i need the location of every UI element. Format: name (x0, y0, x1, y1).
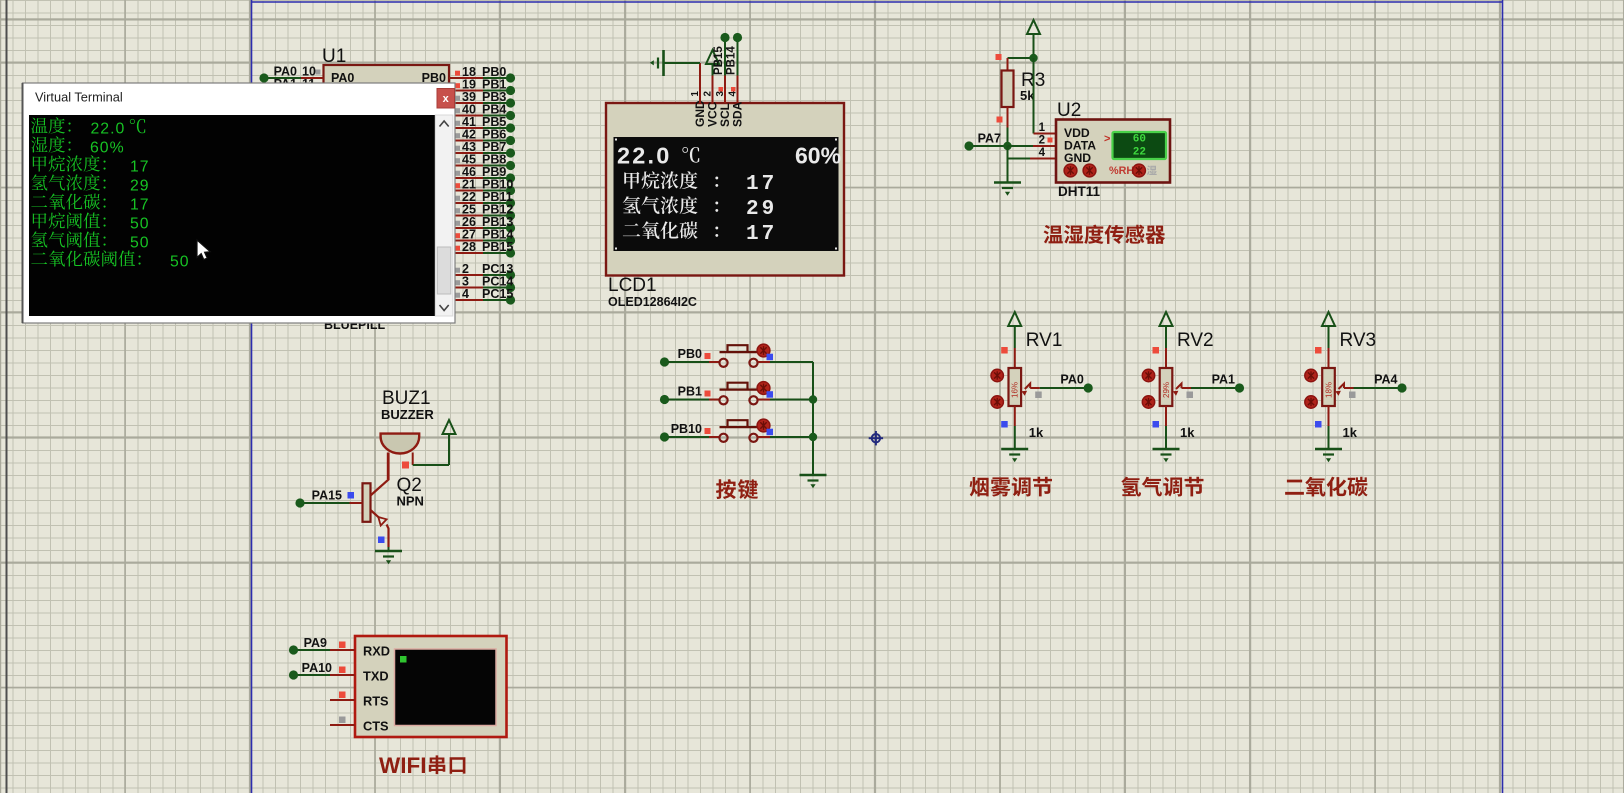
svg-text:PB10: PB10 (671, 422, 702, 436)
svg-text:BUZ1: BUZ1 (382, 388, 431, 409)
virtual terminal window (23, 83, 456, 323)
pin marker R3 top (996, 54, 1002, 60)
node PA10 terminal (289, 670, 298, 679)
svg-text:29: 29 (130, 178, 150, 195)
svg-text:PA9: PA9 (304, 636, 327, 650)
Q2 emitter blue marker (378, 537, 385, 544)
wire U1 pin 42 PB6 (449, 140, 483, 142)
virtual terminal text (31, 117, 70, 133)
label co2 caption (1285, 477, 1368, 497)
power arrow RV2 (1160, 312, 1173, 326)
button PB1 cap (720, 383, 758, 390)
mouse cursor (197, 240, 210, 260)
RV2 knob down (1142, 396, 1154, 408)
pin marker (455, 196, 460, 201)
svg-text:17: 17 (746, 223, 777, 246)
wire U1 pin 41 PB5 (449, 127, 483, 129)
Q2 emitter (371, 510, 379, 517)
label smoke caption (970, 477, 1052, 497)
node PB10 terminal (506, 186, 515, 195)
pin marker (455, 183, 460, 188)
svg-text:PA1: PA1 (1212, 373, 1235, 387)
buzzer BUZ1 body (381, 434, 420, 454)
svg-text:PA0: PA0 (1060, 373, 1083, 387)
button PB10 cap (720, 420, 758, 427)
lcd pin stub 2 (712, 76, 714, 104)
node bus junction 2 (809, 433, 817, 441)
pin marker PA9 (339, 642, 346, 649)
svg-text:17: 17 (130, 197, 150, 214)
pin marker 3 (719, 87, 724, 92)
svg-text:16%: 16% (1011, 382, 1020, 398)
dht11 knob plus (1083, 164, 1096, 177)
left editor border (6, 0, 8, 793)
sensor U2 body (1056, 120, 1170, 183)
pin marker PA10 (339, 667, 346, 674)
label buttons caption (716, 479, 758, 499)
pin marker (455, 133, 460, 138)
button PB10 pin rings (719, 434, 727, 442)
dht11 knob minus (1064, 164, 1077, 177)
wire U1 pin 45 PB8 (449, 165, 483, 167)
wire buzzer to power (413, 464, 449, 466)
pin marker gray RV1 (1035, 392, 1042, 399)
wire PA1 to U1 (268, 90, 301, 92)
wire DATA (1008, 145, 1034, 147)
svg-text:NPN: NPN (397, 494, 424, 509)
svg-text:BUZZER: BUZZER (381, 407, 434, 422)
wire U1 pin 28 PB15 (449, 252, 483, 254)
wire RV2 wiper out (1182, 387, 1192, 389)
node PC15 terminal (506, 295, 515, 304)
svg-text:PC15: PC15 (482, 287, 513, 301)
pin marker RV1 top (1001, 347, 1008, 354)
svg-text:PA4: PA4 (1374, 373, 1397, 387)
wire RV1 wiper out (1030, 387, 1040, 389)
pin marker (455, 293, 460, 298)
node PB11 terminal (506, 198, 515, 207)
svg-text:1: 1 (1039, 122, 1046, 134)
node R3/PA7 junction (1003, 142, 1011, 150)
svg-text:PB15: PB15 (713, 46, 725, 75)
node PA9 terminal (289, 645, 298, 654)
wire U1 pin 22 PB11 (449, 202, 483, 204)
wire U1 pin 2 PC13 (449, 274, 483, 276)
wire U1 pin 3 PC14 (449, 287, 483, 289)
node PA4 terminal (1397, 383, 1406, 392)
pin marker (455, 208, 460, 213)
pin marker R3 bottom (997, 117, 1003, 123)
lcd pin stub 4 (737, 76, 739, 104)
wire R3 bottom (1007, 107, 1009, 128)
svg-text:x: x (443, 93, 450, 105)
lcd text line4 (623, 221, 698, 239)
wire U1 pin 4 PC15 (449, 299, 483, 301)
wire RV2 bottom (1165, 406, 1167, 426)
Q2 blue marker (348, 492, 355, 499)
node PA15 terminal (295, 498, 304, 507)
RV1 blue marker (1001, 421, 1008, 428)
RV3 wiper (1339, 384, 1345, 390)
pin marker (455, 71, 460, 76)
svg-text:OLED12864I2C: OLED12864I2C (608, 295, 697, 309)
svg-text:4: 4 (462, 287, 469, 301)
svg-text:RV1: RV1 (1026, 330, 1063, 351)
svg-text:28: 28 (462, 240, 476, 254)
svg-text:RV2: RV2 (1177, 330, 1214, 351)
pin marker (455, 233, 460, 238)
dht11 knob rh (1133, 164, 1146, 177)
wire lcd pin1 to ground (699, 63, 701, 76)
svg-text:18%: 18% (1324, 382, 1333, 398)
pin marker (455, 83, 460, 88)
svg-text:PA15: PA15 (312, 489, 342, 503)
button PB1 knob (757, 382, 770, 395)
wire RV3 bottom (1328, 406, 1330, 426)
label sensor caption (1044, 225, 1166, 244)
svg-text:PB15: PB15 (482, 240, 513, 254)
pin marker (705, 428, 711, 434)
svg-text:60: 60 (1133, 134, 1146, 146)
wire U1 pin 25 PB12 (449, 215, 483, 217)
wire CTS stub (330, 724, 355, 726)
wire U1 pin 21 PB10 (449, 190, 483, 192)
node PB12 terminal (506, 211, 515, 220)
node bus junction 1 (809, 395, 817, 403)
wire buzzer right leg (412, 453, 414, 466)
transistor Q2 base bar (363, 483, 371, 522)
pin marker (455, 108, 460, 113)
svg-text:50: 50 (130, 216, 150, 233)
pin marker (455, 268, 460, 273)
wire VDD pin (1033, 58, 1035, 134)
ground (rotated) for lcd (650, 50, 664, 76)
svg-text:22.0: 22.0 (617, 143, 672, 169)
svg-text:Virtual Terminal: Virtual Terminal (35, 90, 123, 105)
resistor R3 (1002, 71, 1014, 108)
dht11 green display (1113, 132, 1167, 159)
svg-text:50: 50 (130, 235, 150, 252)
wire U1 pin 43 PB7 (449, 152, 483, 154)
svg-text:>: > (1104, 133, 1110, 145)
wire RTS stub (330, 699, 355, 701)
node PB0 terminal (506, 73, 515, 82)
node PB9 terminal (506, 173, 515, 182)
node PB14 terminal (506, 236, 515, 245)
svg-text:2: 2 (1039, 135, 1045, 147)
pin marker dht11 pin2 (1048, 138, 1053, 143)
wire button PB10 to bus (758, 436, 770, 438)
pin marker (455, 158, 460, 163)
svg-text:PB0: PB0 (678, 347, 702, 361)
wifi cursor (400, 656, 407, 663)
svg-text:PA7: PA7 (978, 132, 1001, 146)
button PB0 pin rings (719, 359, 727, 367)
svg-text:1k: 1k (1343, 425, 1358, 440)
node PB4 terminal (506, 111, 515, 120)
node PA1 terminal (1235, 383, 1244, 392)
svg-text:SDA: SDA (731, 101, 745, 127)
node power junction (1029, 54, 1037, 62)
svg-text:2: 2 (702, 91, 713, 97)
node PB15 terminal (506, 248, 515, 257)
svg-text:TXD: TXD (363, 669, 389, 684)
svg-text:22.0: 22.0 (91, 121, 126, 138)
pin marker RV3 top (1315, 347, 1322, 354)
svg-text:GND: GND (1064, 151, 1091, 165)
pin marker (455, 121, 460, 126)
svg-text:50: 50 (170, 254, 190, 271)
wire to ground dht11 (1007, 159, 1009, 183)
pin marker gray (316, 70, 321, 75)
power vcc arrow lcd (712, 64, 714, 76)
svg-text:PB1: PB1 (678, 385, 702, 399)
wire button PB1 to bus (758, 399, 770, 401)
button PB1 blue marker (767, 391, 774, 398)
wire U1 pin 26 PB13 (449, 227, 483, 229)
wire power to R3 (1008, 57, 1034, 59)
wire PB0 to button (668, 361, 709, 363)
pin marker buzzer (402, 462, 409, 469)
lcd pin stub 1 (699, 76, 701, 104)
wire U1 pin 18 PB0 (449, 77, 483, 79)
wire PA0 to U1 (268, 77, 301, 79)
pin marker (455, 221, 460, 226)
pin marker gray RV3 (1349, 392, 1356, 399)
power arrow RV1 (1008, 312, 1021, 326)
lcd text line3 (623, 196, 698, 214)
node PC14 terminal (506, 283, 515, 292)
svg-text:U2: U2 (1057, 100, 1081, 121)
RV2 wiper (1176, 384, 1182, 390)
RV2 knob up (1142, 369, 1154, 381)
wire lcd sda to PB14 (737, 38, 739, 76)
pin marker (455, 171, 460, 176)
svg-text:17: 17 (746, 173, 777, 196)
potentiometer RV3 body (1322, 368, 1335, 406)
RV2 blue marker (1153, 421, 1160, 428)
wire PB10 to button (668, 436, 709, 438)
node PB5 terminal (506, 123, 515, 132)
svg-text:1k: 1k (1180, 425, 1195, 440)
ground buttons (800, 475, 827, 488)
RV1 knob up (991, 369, 1003, 381)
button PB0 cap (720, 345, 758, 352)
wire PB1 to button (668, 399, 709, 401)
svg-text:22: 22 (1133, 147, 1146, 159)
node PA0 terminal (259, 73, 268, 82)
node PB1 terminal (660, 395, 669, 404)
node PB8 terminal (506, 161, 515, 170)
pin marker (455, 146, 460, 151)
ground Q2 (375, 551, 402, 564)
wire RV1 bottom (1014, 406, 1016, 426)
svg-text:RV3: RV3 (1340, 330, 1377, 351)
button PB10 blue marker (767, 429, 774, 436)
mcu U1 body (324, 65, 450, 317)
svg-text:29: 29 (746, 198, 777, 221)
pin marker (705, 353, 711, 359)
wire emitter to ground (388, 547, 390, 551)
potentiometer RV1 body (1009, 368, 1022, 406)
node PB0 terminal (660, 357, 669, 366)
svg-text:17: 17 (130, 159, 150, 176)
svg-text:1: 1 (690, 91, 701, 97)
pin marker (455, 246, 460, 251)
svg-text:PB14: PB14 (726, 46, 738, 75)
button PB0 knob (757, 344, 770, 357)
RV3 blue marker (1315, 421, 1322, 428)
sheet border blue (252, 0, 1503, 793)
svg-text:WIFI: WIFI (379, 753, 426, 778)
RV3 knob up (1305, 369, 1317, 381)
ground RV1 (1001, 449, 1028, 462)
svg-text:60%: 60% (795, 143, 841, 169)
origin marker (869, 431, 883, 445)
label hydrogen caption (1121, 477, 1203, 497)
wire U1 pin 27 PB14 (449, 240, 483, 242)
svg-text:PA10: PA10 (302, 661, 332, 675)
wire U1 pin 40 PB4 (449, 115, 483, 117)
node PB10 terminal (660, 432, 669, 441)
power arrow RV3 (1322, 312, 1335, 326)
pin marker gray RV2 (1187, 392, 1194, 399)
wire PA7 (973, 145, 1008, 147)
RV1 knob down (991, 396, 1003, 408)
button PB1 pin rings (719, 396, 727, 404)
node PB3 terminal (506, 98, 515, 107)
power arrow buzzer (443, 420, 456, 434)
pin marker CTS (339, 717, 346, 724)
wire RV3 wiper out (1344, 387, 1354, 389)
svg-text:RTS: RTS (363, 694, 389, 709)
ground RV3 (1315, 449, 1342, 462)
svg-text:U1: U1 (322, 46, 346, 67)
svg-text:LCD1: LCD1 (608, 275, 657, 296)
ground RV2 (1153, 449, 1180, 462)
wire U1 pin 39 PB3 (449, 102, 483, 104)
node PB7 terminal (506, 148, 515, 157)
wire U1 pin 46 PB9 (449, 177, 483, 179)
Q2 collector (371, 453, 389, 496)
wifi terminal body (355, 636, 507, 737)
power arrow dht11 (1027, 20, 1040, 34)
node PB6 terminal (506, 136, 515, 145)
pin marker RV2 top (1153, 347, 1160, 354)
wire button PB0 to bus (758, 361, 770, 363)
node PA7 terminal (964, 141, 973, 150)
wire PA15 base (304, 502, 350, 504)
lcd text line2 (624, 171, 697, 189)
svg-text:CTS: CTS (363, 719, 389, 734)
svg-text:1k: 1k (1029, 425, 1044, 440)
node PA1 terminal (259, 86, 268, 95)
node PB1 terminal (506, 86, 515, 95)
svg-text:%RH: %RH (1109, 165, 1134, 177)
wire buzzer left leg (387, 453, 389, 480)
wifi screen (395, 649, 497, 726)
wire U1 pin 19 PB1 (449, 90, 483, 92)
wire button bus (812, 362, 814, 475)
pin marker (455, 96, 460, 101)
pin marker RTS (339, 692, 346, 699)
lcd pin stub 3 (724, 76, 726, 104)
svg-text:RXD: RXD (363, 644, 390, 659)
wire GND pin (1007, 146, 1009, 159)
pin marker (455, 280, 460, 285)
lcd LCD1 body (606, 103, 844, 276)
node PB15 (720, 33, 729, 42)
svg-text:4: 4 (1039, 147, 1046, 159)
pin marker 4 (731, 87, 736, 92)
wire PA9 (297, 649, 330, 651)
svg-text:29%: 29% (1162, 382, 1171, 398)
node PB14 (733, 33, 742, 42)
node PA0 terminal (1084, 383, 1093, 392)
node PC13 terminal (506, 270, 515, 279)
node PB13 terminal (506, 223, 515, 232)
wire lcd scl to PB15 (724, 38, 726, 76)
RV3 knob down (1305, 396, 1317, 408)
svg-text:60%: 60% (90, 140, 125, 157)
ground dht11 (994, 183, 1021, 196)
button PB10 knob (757, 419, 770, 432)
wire PA10 (297, 674, 330, 676)
lcd screen (614, 137, 839, 251)
potentiometer RV2 body (1160, 368, 1173, 406)
svg-text:DHT11: DHT11 (1058, 184, 1101, 199)
RV1 wiper (1025, 384, 1030, 390)
dht11 gray glyph (1147, 166, 1157, 175)
button PB0 blue marker (767, 354, 774, 361)
pin marker (705, 391, 711, 397)
